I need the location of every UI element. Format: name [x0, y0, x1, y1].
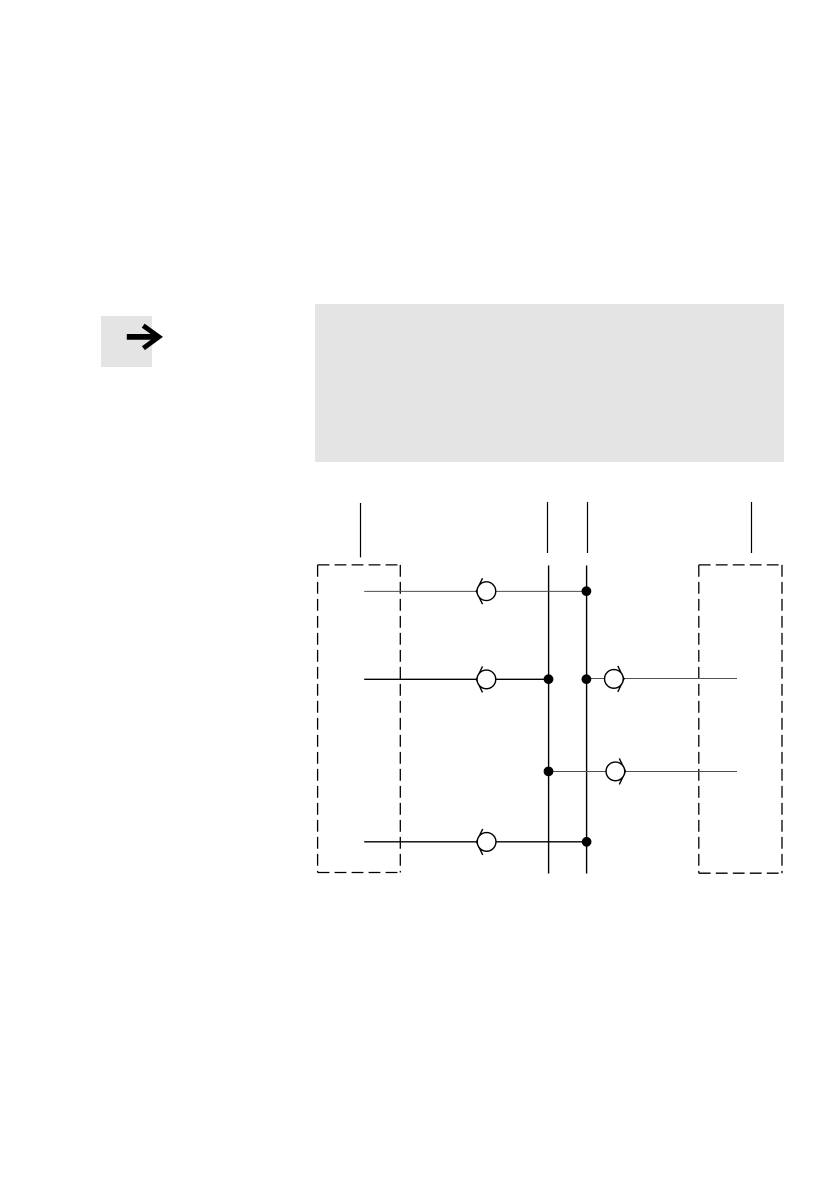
port line A (tick above left bus) — [547, 502, 549, 553]
wire row 4 — [364, 841, 587, 843]
check valve V2 seat — [476, 666, 482, 692]
check valve V3 ball — [605, 670, 624, 689]
check valve V3 seat — [618, 666, 624, 692]
note text gray panel — [315, 304, 784, 462]
check valve V1 seat — [476, 578, 482, 604]
junction dot row2/right bus — [582, 674, 592, 684]
junction dot row1/right bus — [582, 586, 592, 596]
check valve V4 ball — [606, 762, 625, 781]
junction dot row4/right bus — [582, 837, 592, 847]
wire row 1 — [364, 590, 586, 592]
check valve V2 ball — [477, 670, 496, 689]
port line T (top right tick) — [751, 502, 753, 553]
wire row 3 — [549, 771, 737, 773]
junction dot row3/left bus — [544, 767, 554, 777]
port line P (top left tick) — [360, 503, 362, 557]
check valve V1 ball — [477, 582, 496, 601]
right dashed enclosure box — [699, 565, 782, 873]
wire row 2 left — [364, 678, 548, 680]
note arrow icon — [127, 326, 159, 349]
wire row 2 right — [587, 678, 737, 680]
check valve V5 seat — [477, 829, 483, 855]
check valve V5 ball — [477, 833, 496, 852]
check valve V4 seat — [619, 758, 625, 784]
left dashed enclosure box — [318, 565, 401, 873]
note icon gray box — [101, 316, 152, 367]
port line B (tick above right bus) — [587, 502, 589, 553]
junction dot row2/left bus — [544, 674, 554, 684]
vertical bus line left — [548, 566, 550, 874]
vertical bus line right — [586, 566, 588, 874]
